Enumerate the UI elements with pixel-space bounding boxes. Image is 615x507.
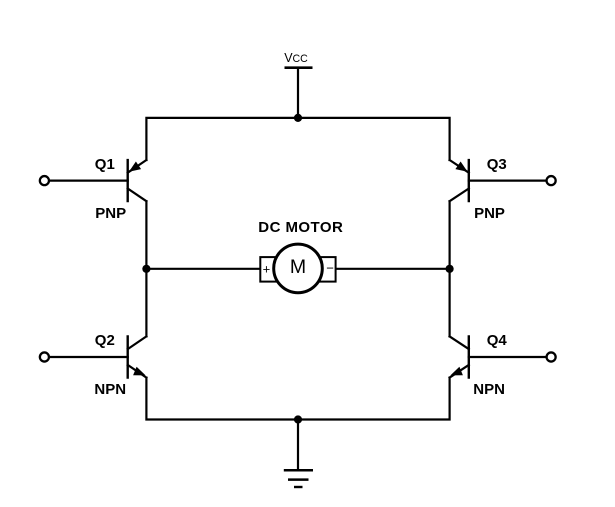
svg-text:VCC: VCC [284, 51, 308, 65]
svg-text:Q3: Q3 [487, 156, 507, 173]
svg-text:+: + [263, 262, 271, 277]
svg-text:PNP: PNP [95, 205, 126, 222]
svg-text:NPN: NPN [473, 381, 505, 398]
svg-text:DC MOTOR: DC MOTOR [258, 219, 343, 236]
svg-text:NPN: NPN [94, 381, 126, 398]
svg-text:Q1: Q1 [95, 156, 115, 173]
svg-text:PNP: PNP [474, 205, 505, 222]
svg-text:Q2: Q2 [95, 332, 115, 349]
svg-text:M: M [290, 256, 306, 278]
svg-text:−: − [326, 261, 334, 276]
svg-text:Q4: Q4 [487, 332, 508, 349]
